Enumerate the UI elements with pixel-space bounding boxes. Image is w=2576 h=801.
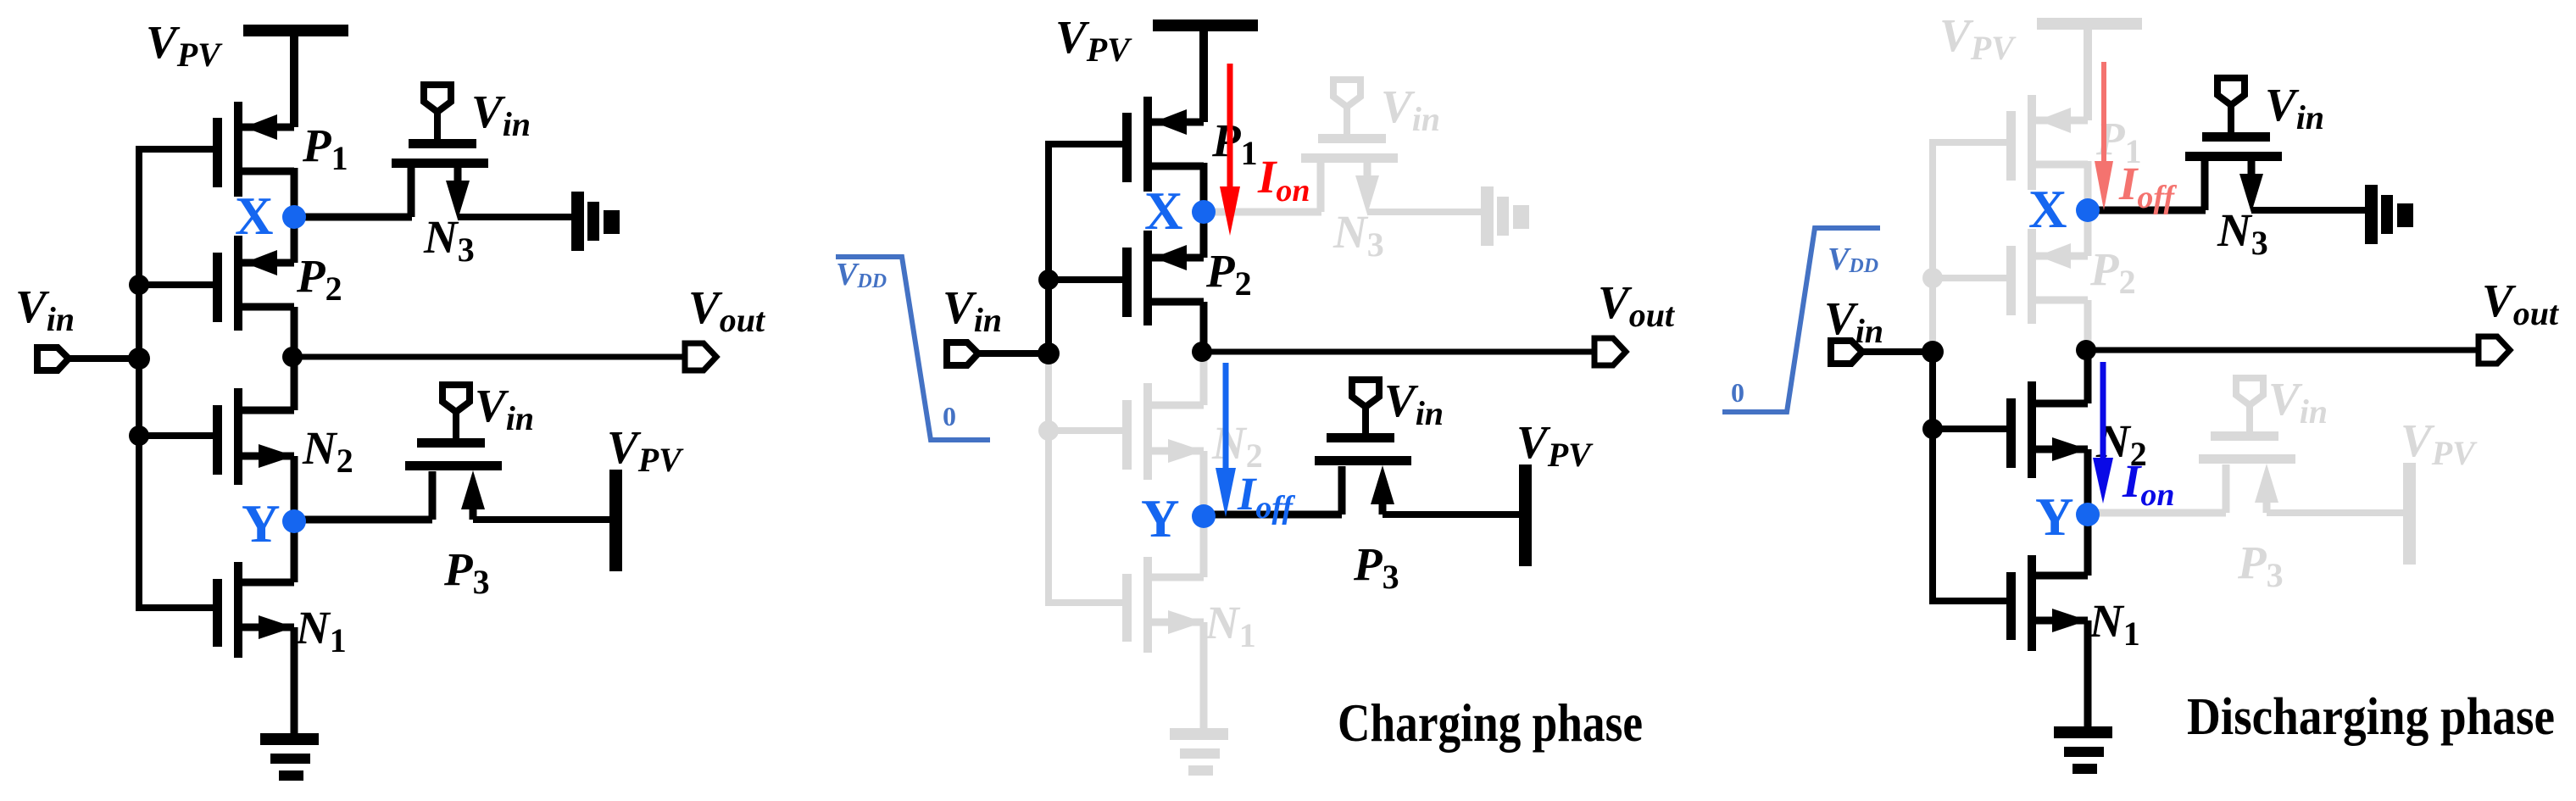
transistor N2 (NMOS) bbox=[2006, 351, 2088, 516]
transistor N1 (NMOS) bbox=[213, 520, 294, 737]
V_PV terminal bar bbox=[2403, 463, 2416, 565]
label N2 bbox=[1211, 417, 1263, 475]
output port V_out bbox=[685, 343, 716, 370]
transistor N3 (NMOS pass gate) bbox=[392, 85, 488, 220]
input port V_in bbox=[37, 348, 69, 370]
current arrow I_off (light red) at node X bbox=[2095, 62, 2113, 210]
junction N2 gate / bus bbox=[129, 426, 149, 446]
wire gate bus (upper) bbox=[136, 146, 142, 359]
junction V_out node bbox=[2076, 340, 2096, 360]
wire node X to N3 bbox=[294, 214, 412, 221]
svg-text:Y: Y bbox=[1141, 489, 1180, 548]
svg-text:X: X bbox=[1144, 181, 1183, 241]
waveform V_DD falling bbox=[836, 257, 990, 440]
wire node Y to P3 bbox=[2088, 509, 2226, 517]
svg-text:Y: Y bbox=[2035, 487, 2074, 547]
wire V_in to bus bbox=[69, 355, 142, 362]
label P3 bbox=[2237, 537, 2284, 594]
input port V_in bbox=[947, 342, 978, 365]
wire P2 gate bbox=[139, 281, 214, 288]
wire N1 gate bbox=[1045, 599, 1124, 606]
label N3 bbox=[1333, 206, 1384, 264]
ground bbox=[1170, 728, 1228, 776]
svg-text:0: 0 bbox=[943, 401, 956, 431]
transistor P2 (PMOS) bbox=[1122, 210, 1204, 354]
wire node Y to P3 bbox=[1204, 511, 1342, 519]
junction V_in / bus bbox=[1038, 342, 1060, 364]
wire V_out bbox=[1202, 349, 1594, 355]
label V_in (N3 gate) bbox=[471, 86, 531, 143]
label V_DD (rising waveform) bbox=[1828, 242, 1878, 277]
label V_out bbox=[688, 281, 766, 339]
transistor N2 (NMOS) bbox=[1122, 353, 1204, 518]
label P1 bbox=[1211, 114, 1258, 172]
label X bbox=[1144, 181, 1183, 241]
label P3 bbox=[443, 543, 490, 601]
node Y bbox=[1192, 504, 1216, 528]
svg-text:Charging phase: Charging phase bbox=[1338, 693, 1643, 753]
termination (supply bars) bbox=[1481, 186, 1529, 246]
label V_in (P3 gate) bbox=[2268, 373, 2328, 431]
transistor N2 (NMOS) bbox=[213, 358, 294, 523]
wire N2 gate bbox=[1049, 427, 1124, 434]
label V_PV (rail) bbox=[146, 16, 223, 74]
junction P2 gate / bus bbox=[1922, 268, 1943, 288]
current arrow I_on (dark blue) to node Y bbox=[2093, 362, 2113, 503]
label V_in (P3 gate) bbox=[475, 380, 534, 437]
wire V_out bbox=[292, 354, 685, 360]
ground bbox=[2054, 726, 2112, 774]
label V_out bbox=[1598, 276, 1676, 334]
caption Discharging phase bbox=[2187, 688, 2555, 746]
junction V_out node bbox=[282, 347, 303, 367]
transistor P1 (PMOS) bbox=[2006, 95, 2088, 212]
label 0 (falling waveform) bbox=[943, 401, 956, 431]
label I_on (dark blue) bbox=[2122, 455, 2175, 513]
svg-text:X: X bbox=[2028, 180, 2067, 239]
power rail V_PV bbox=[1153, 19, 1258, 122]
transistor N3 (NMOS pass gate) bbox=[1301, 80, 1398, 214]
wire P1 gate bbox=[139, 146, 214, 153]
V_PV terminal bar bbox=[1519, 464, 1532, 566]
junction V_in / bus bbox=[1922, 341, 1944, 363]
label V_PV (rail) bbox=[1939, 9, 2017, 67]
junction V_in / bus bbox=[128, 348, 150, 370]
label P2 bbox=[2089, 243, 2136, 301]
label V_in (P3 gate) bbox=[1384, 375, 1444, 432]
label I_off (light red) bbox=[2118, 158, 2177, 215]
junction N2 gate / bus bbox=[1038, 420, 1059, 441]
wire P3 to V_PV bar bbox=[473, 516, 609, 523]
label V_PV (P3 source) bbox=[2401, 414, 2478, 472]
termination (supply bars) bbox=[2365, 185, 2413, 244]
junction P2 gate / bus bbox=[1038, 270, 1059, 290]
wire P2 gate bbox=[1933, 275, 2008, 281]
wire P3 to V_PV bar bbox=[1383, 511, 1519, 518]
svg-text:Y: Y bbox=[242, 494, 281, 553]
transistor N3 (NMOS pass gate) bbox=[2185, 78, 2282, 213]
output port V_out bbox=[1594, 338, 1626, 365]
label V_PV (P3 source) bbox=[1516, 416, 1594, 474]
junction P2 gate / bus bbox=[129, 275, 149, 295]
svg-text:Discharging phase: Discharging phase bbox=[2187, 688, 2555, 746]
label Y bbox=[2035, 487, 2074, 547]
label P1 bbox=[2095, 113, 2142, 170]
wire N3 to termination bbox=[1367, 209, 1483, 215]
node Y bbox=[282, 509, 306, 533]
label N3 bbox=[423, 211, 475, 269]
label V_in (input) bbox=[1824, 292, 1883, 350]
wire V_in to bus bbox=[978, 350, 1052, 357]
wire gate bus (lower) bbox=[1929, 349, 1936, 601]
output port V_out bbox=[2479, 337, 2510, 364]
wire node X to N3 bbox=[2088, 207, 2206, 214]
label V_DD (falling waveform) bbox=[836, 257, 887, 292]
wire N1 gate bbox=[1929, 598, 2008, 604]
label V_PV (P3 source) bbox=[607, 421, 684, 479]
label V_in (input) bbox=[15, 281, 75, 338]
label P3 bbox=[1353, 538, 1399, 596]
power rail V_PV bbox=[243, 25, 348, 127]
svg-text:X: X bbox=[235, 186, 274, 246]
transistor P1 (PMOS) bbox=[213, 102, 294, 219]
transistor N1 (NMOS) bbox=[1122, 515, 1204, 732]
wire gate bus (upper) bbox=[1045, 141, 1052, 354]
transistor P2 (PMOS) bbox=[2006, 209, 2088, 353]
power rail V_PV bbox=[2037, 18, 2142, 120]
label N1 bbox=[1205, 597, 1256, 654]
label P2 bbox=[1205, 245, 1252, 303]
input port V_in bbox=[1831, 341, 1862, 364]
wire V_out bbox=[2086, 348, 2479, 353]
V_PV terminal bar bbox=[609, 470, 622, 571]
label P1 bbox=[302, 120, 348, 177]
label I_on (red) bbox=[1257, 151, 1310, 209]
label V_out bbox=[2482, 275, 2560, 332]
wire N3 to termination bbox=[458, 214, 573, 220]
node Y bbox=[2076, 503, 2100, 526]
transistor P3 (PMOS pass gate) bbox=[2199, 378, 2295, 513]
wire N2 gate bbox=[1933, 426, 2008, 432]
ground bbox=[260, 733, 319, 781]
label Y bbox=[1141, 489, 1180, 548]
label X bbox=[2028, 180, 2067, 239]
wire node X to N3 bbox=[1204, 209, 1321, 216]
termination (supply bars) bbox=[571, 192, 620, 251]
wire N1 gate bbox=[136, 604, 214, 611]
label N3 bbox=[2217, 204, 2268, 262]
node X bbox=[282, 205, 306, 229]
label P2 bbox=[296, 250, 342, 308]
wire V_in to bus bbox=[1862, 348, 1936, 355]
wire node Y to P3 bbox=[294, 516, 432, 524]
transistor P3 (PMOS pass gate) bbox=[1315, 380, 1411, 515]
label N1 bbox=[295, 602, 347, 659]
label N1 bbox=[2089, 595, 2140, 653]
wire gate bus (lower) bbox=[136, 356, 142, 608]
caption Charging phase bbox=[1338, 693, 1643, 753]
label X bbox=[235, 186, 274, 246]
label V_in (N3 gate) bbox=[1381, 81, 1440, 138]
transistor P2 (PMOS) bbox=[213, 215, 294, 359]
node X bbox=[2076, 198, 2100, 222]
junction V_out node bbox=[1192, 342, 1212, 362]
label N2 bbox=[2095, 415, 2147, 473]
wire P3 to V_PV bar bbox=[2267, 509, 2403, 516]
label V_PV (rail) bbox=[1055, 11, 1132, 69]
wire N3 to termination bbox=[2251, 207, 2367, 214]
label V_in (N3 gate) bbox=[2265, 79, 2324, 136]
node X bbox=[1192, 200, 1216, 224]
wire N2 gate bbox=[139, 432, 214, 439]
transistor N1 (NMOS) bbox=[2006, 513, 2088, 731]
wire P1 gate bbox=[1933, 139, 2008, 146]
wire P2 gate bbox=[1049, 276, 1124, 283]
label V_in (input) bbox=[943, 281, 1002, 339]
label 0 (rising waveform) bbox=[1731, 377, 1744, 408]
wire P1 gate bbox=[1049, 141, 1124, 147]
wire gate bus (upper) bbox=[1929, 139, 1936, 353]
label Y bbox=[242, 494, 281, 553]
svg-text:0: 0 bbox=[1731, 377, 1744, 408]
current arrow I_off (blue) to node Y bbox=[1216, 363, 1236, 517]
waveform V_DD rising bbox=[1722, 228, 1880, 412]
label N2 bbox=[302, 422, 353, 480]
current arrow I_on (red) at node X bbox=[1220, 64, 1240, 236]
transistor P3 (PMOS pass gate) bbox=[405, 385, 502, 520]
junction N2 gate / bus bbox=[1922, 419, 1943, 439]
wire gate bus (lower) bbox=[1045, 351, 1052, 603]
label I_off (blue) bbox=[1237, 468, 1295, 526]
transistor P1 (PMOS) bbox=[1122, 97, 1204, 214]
